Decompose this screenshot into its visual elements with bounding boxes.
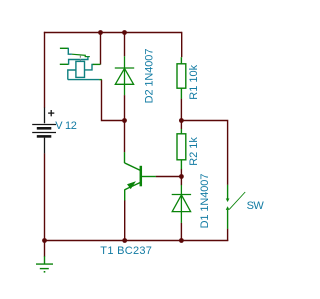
node junction dot D1 / bottom rail <box>179 238 184 243</box>
node junction dot emitter / bottom rail <box>122 238 127 243</box>
switch SW <box>226 185 245 229</box>
wire left rail upper (battery + lead) <box>44 32 46 108</box>
node junction dot top rail / D2 <box>122 30 127 35</box>
wire left rail lower (battery - to ground rail) <box>44 153 46 241</box>
wire bottom rail <box>44 240 228 242</box>
wire D2 anode to node <box>124 95 126 120</box>
relay contact pin lead lower <box>60 63 69 65</box>
relay actuator dashed link <box>79 56 81 62</box>
wire R1 top <box>181 32 183 57</box>
wire relay coil pin2 down and right to node <box>102 80 125 121</box>
svg-text:D2 1N4007: D2 1N4007 <box>144 49 156 104</box>
svg-text:D1 1N4007: D1 1N4007 <box>199 174 211 229</box>
relay contact return path <box>69 56 88 64</box>
transistor T1 (BC237) <box>125 152 156 200</box>
relay contact lever <box>72 54 86 55</box>
diode D2 <box>115 56 134 95</box>
battery V1 symbol <box>32 108 56 154</box>
wire D2 cathode to top rail <box>124 33 126 57</box>
wire transistor emitter to bottom rail <box>124 200 126 241</box>
svg-text:R1 10k: R1 10k <box>188 64 200 99</box>
wire D1 bottom to bottom rail <box>180 223 182 241</box>
relay coil pin2 lead <box>99 79 102 81</box>
relay coil pin1 lead <box>93 63 101 65</box>
wire transistor collector to node <box>124 121 126 153</box>
wire R2 bottom to base node <box>180 169 182 177</box>
wire ground stub <box>44 241 46 257</box>
relay coil left step <box>68 70 76 80</box>
svg-text:R2 1k: R2 1k <box>188 137 200 166</box>
node junction dot base / R2 / D1 <box>179 174 184 179</box>
wire base node to D1 top <box>180 177 182 186</box>
svg-text:SW: SW <box>247 200 265 212</box>
relay coil right step <box>85 64 94 70</box>
wire top rail from battery+ to R1 <box>44 32 182 34</box>
relay contact pin lead upper <box>60 47 68 49</box>
wire transistor base to node <box>156 176 182 178</box>
resistor R1 <box>177 57 186 98</box>
relay coil bottom run <box>68 79 99 81</box>
node junction dot D2 anode / collector <box>122 118 127 123</box>
node junction dot top rail / relay <box>98 30 103 35</box>
svg-text:T1 BC237: T1 BC237 <box>100 245 152 257</box>
svg-text:V 12: V 12 <box>55 120 77 132</box>
node junction dot R1 / R2 / switch <box>179 118 184 123</box>
wire relay coil pin1 to top rail <box>100 33 102 65</box>
relay contact elbow upper <box>68 48 72 55</box>
wire node to switch branch <box>181 121 227 185</box>
wire switch bottom to rail corner <box>227 229 229 241</box>
wire R2 top <box>180 121 182 130</box>
diode D1 <box>172 185 191 223</box>
wire R1 bottom to node <box>180 99 182 121</box>
ground <box>36 256 53 272</box>
relay coil K1 body <box>76 61 85 77</box>
resistor R2 <box>177 129 186 169</box>
node junction dot ground tap <box>42 238 47 243</box>
relay fixed contact <box>85 56 90 58</box>
